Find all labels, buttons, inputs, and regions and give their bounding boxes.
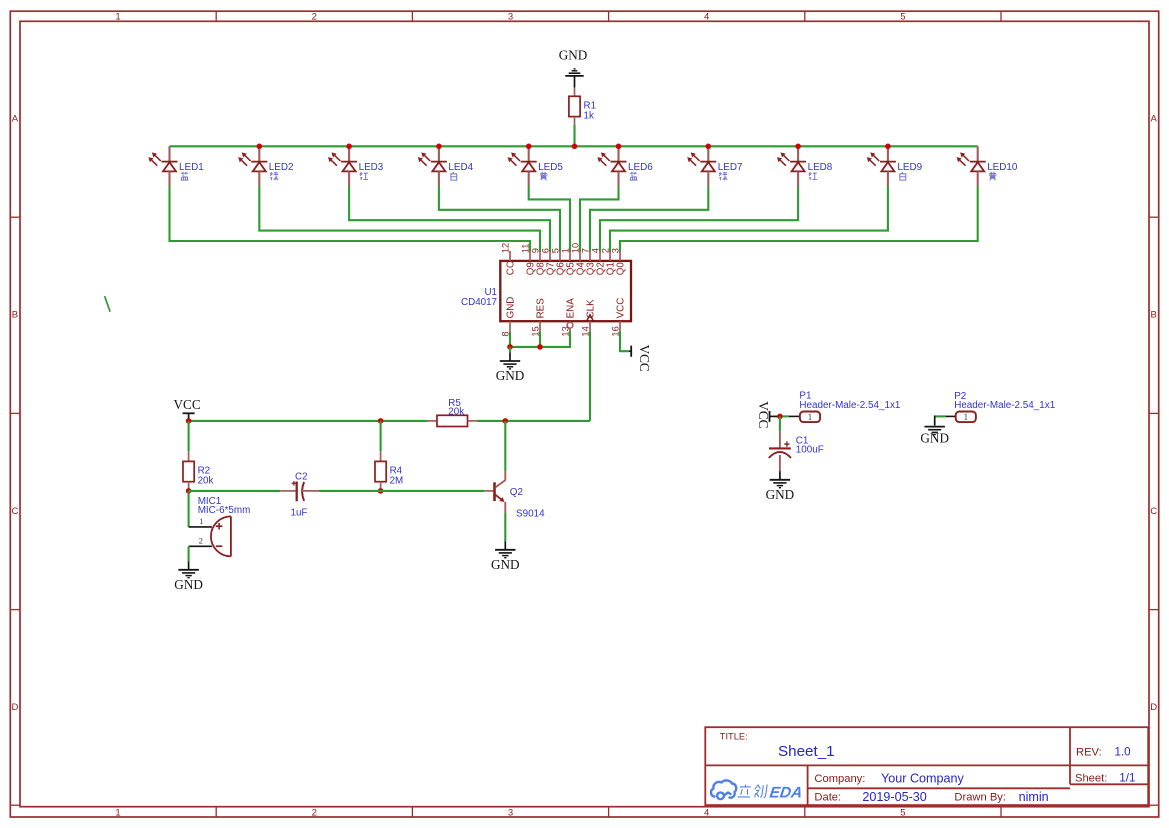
LED6 [617,146,619,161]
svg-text:2: 2 [312,12,317,23]
svg-text:RES: RES [535,298,546,319]
svg-text:Q0: Q0 [615,262,626,276]
svg-text:11: 11 [521,244,531,254]
svg-text:GND: GND [491,557,520,572]
U1 pin 16 VCC (bottom) [619,321,621,331]
svg-text:CLK: CLK [585,299,596,319]
svg-text:VCC: VCC [615,298,626,319]
frame column ticks top [215,11,217,21]
wire LED1 to U1 pin [170,186,531,252]
wire U1 pins 8,15,13 to ground [509,331,511,347]
U1 pin 9 Q8 (top) [539,251,541,261]
U1 pin 11 Q9 (top) [529,251,531,261]
wire LED6 to U1 pin [580,186,619,252]
svg-text:LED4: LED4 [448,162,473,173]
svg-text:A: A [12,113,19,124]
svg-text:3: 3 [611,248,621,253]
wire LED5 to U1 pin [529,186,570,252]
svg-text:MIC-6*5mm: MIC-6*5mm [198,505,251,516]
svg-text:1.0: 1.0 [1115,746,1131,759]
svg-text:Company:: Company: [814,773,865,785]
svg-text:Header-Male-2.54_1x1: Header-Male-2.54_1x1 [799,400,901,411]
svg-text:LED10: LED10 [987,162,1018,173]
LED1 [168,146,170,161]
resistor R5 [428,420,438,422]
svg-text:Your Company: Your Company [881,771,965,785]
wire P2 to ground [935,415,946,417]
svg-text:1uF: 1uF [291,508,308,519]
U1 pin 5 Q6 (top) [559,251,561,261]
ground symbol under P2 [925,426,945,428]
svg-text:5: 5 [900,12,905,23]
svg-text:D: D [1150,702,1157,713]
U1 pin 13 ENA (bottom) [567,322,573,328]
resistor R1 [574,88,576,97]
power flag VCC right of U1 [629,350,631,352]
wire LED4 to U1 pin [439,186,560,252]
U1 pin 14 CLK (bottom) [589,321,591,331]
junction node LED5/bus [526,144,532,150]
svg-text:Sheet_1: Sheet_1 [778,743,835,760]
header P1 [780,415,789,417]
LED3 [348,146,350,161]
svg-text:4: 4 [704,807,709,818]
title block outline [705,727,1148,805]
LED8 [797,146,799,161]
wire LED9 to U1 pin [610,186,888,252]
svg-text:Q2: Q2 [510,487,523,498]
svg-text:C: C [11,506,18,517]
svg-text:GND: GND [174,577,203,592]
svg-text:2: 2 [312,807,317,818]
wire LED anode bus [170,145,978,147]
svg-text:A: A [1151,113,1158,124]
wire C2 to R4/Q2 base [319,490,484,492]
ground symbol top (pointing up) [565,75,583,77]
ground symbol under C1 [779,471,781,480]
wire R2 to C2 [189,490,281,492]
U1 pin 15 RES (bottom) [539,321,541,331]
ground symbol under Q2 [504,541,506,550]
svg-text:4: 4 [591,248,601,253]
junction node R4 top [378,418,384,424]
svg-text:3: 3 [508,807,513,818]
wire U1 pin16 to VCC [620,331,629,351]
wire LED10 to U1 pin [620,186,978,252]
capacitor C2 [280,490,296,492]
svg-text:GND: GND [766,487,795,502]
svg-text:CD4017: CD4017 [461,297,497,308]
svg-text:1: 1 [561,248,571,253]
svg-text:B: B [1151,310,1157,321]
svg-text:9: 9 [531,248,541,253]
LED2 [258,146,260,161]
svg-text:CO: CO [505,260,516,275]
junction node pin8 [507,344,513,350]
wire VCC rail [189,420,428,422]
svg-text:D: D [11,702,18,713]
LED4 [438,146,440,161]
svg-text:2: 2 [601,248,611,253]
wire R1 to LED bus [574,117,576,126]
svg-text:4: 4 [704,12,709,23]
svg-text:TITLE:: TITLE: [720,732,748,742]
wire MIC1 pin2 to ground [188,546,190,561]
svg-text:LED2: LED2 [269,162,294,173]
svg-text:GND: GND [496,368,525,383]
svg-text:1: 1 [115,807,120,818]
LED10 [977,146,979,161]
wire LED7 to U1 pin [590,186,708,252]
svg-text:LED8: LED8 [808,162,833,173]
transistor Q2 S9014 [484,490,493,492]
junction node R2 bottom [186,488,192,494]
svg-text:1: 1 [808,413,813,423]
U1 pin 6 Q7 (top) [549,251,551,261]
junction node R1/bus [572,144,578,150]
svg-text:LED5: LED5 [538,162,563,173]
wire R2 node to MIC1 pin1 [188,491,190,527]
svg-text:C: C [1150,506,1157,517]
junction node LED2/bus [257,144,263,150]
LED5 [528,146,530,161]
svg-text:5: 5 [551,248,561,253]
svg-text:C2: C2 [295,471,308,482]
svg-text:7: 7 [581,248,591,253]
svg-text:VCC: VCC [637,345,652,372]
microphone MIC1 [189,526,212,528]
frame column ticks bottom [215,807,217,817]
svg-text:LED1: LED1 [179,162,204,173]
svg-text:10: 10 [571,243,581,253]
wire C1 to ground [779,455,781,471]
wire stray segment [105,296,111,312]
junction node LED9/bus [885,144,891,150]
wire LED3 to U1 pin [349,186,550,252]
U1 pin 1 Q5 (top) [569,251,571,261]
svg-text:1/1: 1/1 [1119,771,1135,784]
junction node LED3/bus [346,144,352,150]
junction node pin15 [537,344,543,350]
svg-text:LED6: LED6 [628,162,653,173]
svg-text:1: 1 [963,413,968,423]
svg-text:GND: GND [920,430,949,445]
svg-text:ENA: ENA [565,298,576,319]
logo 立创EDA text [737,785,804,802]
U1 pin 7 Q3 (top) [589,251,591,261]
U1 pin 12 CO (top) [509,251,511,261]
U1 pin 8 GND (bottom) [509,321,511,331]
svg-text:2M: 2M [390,475,404,486]
svg-text:Drawn By:: Drawn By: [954,791,1006,803]
logo EasyEDA cloud [711,780,736,799]
LED7 [707,146,709,161]
svg-text:VCC: VCC [174,397,201,412]
svg-text:LED3: LED3 [359,162,384,173]
junction node LED7/bus [706,144,712,150]
svg-text:12: 12 [501,243,511,253]
svg-text:REV:: REV: [1076,747,1102,759]
svg-text:GND: GND [505,297,516,319]
svg-text:5: 5 [900,807,905,818]
svg-text:100uF: 100uF [796,444,824,455]
junction node LED6/bus [616,144,622,150]
svg-text:GND: GND [559,48,588,63]
svg-text:S9014: S9014 [516,508,545,519]
svg-text:B: B [12,310,18,321]
wire LED2 to U1 pin [259,186,540,252]
svg-text:20k: 20k [448,407,464,418]
junction node Q2 collector top [503,418,509,424]
svg-text:Date:: Date: [814,791,841,803]
U1 pin 3 Q0 (top) [619,251,621,261]
svg-text:3: 3 [508,12,513,23]
svg-text:LED7: LED7 [718,162,743,173]
svg-text:6: 6 [541,248,551,253]
svg-text:2019-05-30: 2019-05-30 [862,790,926,804]
junction node R4 bottom [378,488,384,494]
wire U1 pin14 CLK down to oscillator [589,331,591,421]
junction node VCC rail left [186,418,192,424]
svg-text:VCC: VCC [756,401,771,428]
svg-text:Sheet:: Sheet: [1075,772,1107,784]
frame row ticks left [10,216,20,218]
header P2 [945,415,955,417]
U1 pin 10 Q4 (top) [579,251,581,261]
svg-text:Header-Male-2.54_1x1: Header-Male-2.54_1x1 [954,400,1056,411]
LED9 [887,146,889,161]
svg-text:1: 1 [115,12,120,23]
svg-text:20k: 20k [198,475,214,486]
junction node LED4/bus [436,144,442,150]
resistor R4 [380,421,382,451]
U1 pin 4 Q2 (top) [599,251,601,261]
ground symbol under MIC1 [188,561,190,570]
svg-text:LED9: LED9 [897,162,922,173]
ground symbol under U1 [509,347,511,353]
svg-text:1: 1 [199,517,203,526]
junction node P1/VCC/C1 [777,414,783,420]
wire LED8 to U1 pin [600,186,798,252]
svg-text:EDA: EDA [768,785,803,802]
U1 pin 2 Q1 (top) [609,251,611,261]
svg-text:nimin: nimin [1019,790,1049,804]
svg-text:1k: 1k [584,110,594,121]
capacitor C1 [779,416,781,431]
wire R5 to Q2 collector and CLK [477,420,590,422]
svg-text:2: 2 [199,536,203,545]
wire Q2 emitter to ground [504,513,506,541]
op IC U1 CD4017 body [500,261,631,321]
resistor R2 [188,421,190,451]
junction node LED8/bus [795,144,801,150]
frame row ticks right [1149,216,1159,218]
